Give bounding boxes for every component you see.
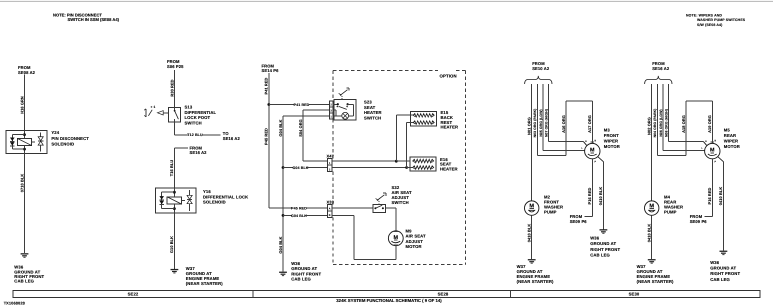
svg-text:N01 ORG: N01 ORG <box>526 117 531 135</box>
svg-text:SE14 P6: SE14 P6 <box>262 68 280 73</box>
svg-text:PUMP: PUMP <box>664 210 677 215</box>
svg-text:HEATER: HEATER <box>364 110 382 115</box>
svg-text:NOTE: WIPERS AND: NOTE: WIPERS AND <box>686 14 722 18</box>
svg-text:P16 RED: P16 RED <box>587 187 592 204</box>
svg-text:SE16 A2: SE16 A2 <box>190 150 208 155</box>
svg-text:A17 ORG: A17 ORG <box>587 115 592 133</box>
svg-text:SWITCH: SWITCH <box>392 200 409 205</box>
svg-text:R30 RED: R30 RED <box>169 79 174 96</box>
svg-text:SE09 P6: SE09 P6 <box>570 219 588 224</box>
svg-text:WIPER: WIPER <box>604 139 618 144</box>
svg-text:X47: X47 <box>327 154 335 159</box>
svg-text:T12 BLU: T12 BLU <box>187 133 203 137</box>
svg-text:W36: W36 <box>590 236 600 241</box>
svg-text:G04 BLK: G04 BLK <box>291 214 307 218</box>
svg-text:S23: S23 <box>364 99 372 104</box>
svg-text:(NEAR STARTER): (NEAR STARTER) <box>186 281 223 286</box>
svg-text:HEATER: HEATER <box>441 125 459 130</box>
svg-text:SOLENOID: SOLENOID <box>51 141 74 146</box>
svg-text:CAB LEG: CAB LEG <box>291 276 311 281</box>
svg-text:N04 ORG (PARK): N04 ORG (PARK) <box>653 109 657 138</box>
svg-text:G10 BLK: G10 BLK <box>169 236 174 253</box>
svg-text:P16 RED: P16 RED <box>707 187 712 204</box>
svg-text:SEAT: SEAT <box>364 105 376 110</box>
svg-text:N08 ORG (HIGH): N08 ORG (HIGH) <box>664 109 668 137</box>
svg-text:MOTOR: MOTOR <box>604 144 620 149</box>
svg-text:SE22: SE22 <box>128 292 139 297</box>
svg-text:CAB LEG: CAB LEG <box>590 252 610 257</box>
svg-text:FRONT: FRONT <box>604 133 619 138</box>
svg-text:PUMP: PUMP <box>544 210 557 215</box>
svg-text:HEATER: HEATER <box>440 167 458 172</box>
svg-text:P45 RED: P45 RED <box>291 207 307 211</box>
svg-text:REAR: REAR <box>724 133 736 138</box>
svg-text:SWITCH IN SSM (SE08 A4): SWITCH IN SSM (SE08 A4) <box>68 17 120 22</box>
svg-text:RIGHT FRONT: RIGHT FRONT <box>590 247 620 252</box>
svg-text:MOTOR: MOTOR <box>724 144 740 149</box>
svg-text:TX1068028: TX1068028 <box>4 301 26 306</box>
svg-text:SWITCH: SWITCH <box>185 120 202 125</box>
svg-text:GROUND AT: GROUND AT <box>590 241 616 246</box>
svg-text:T16 BLU: T16 BLU <box>169 160 174 177</box>
svg-text:X33: X33 <box>327 199 335 204</box>
svg-text:S/W (SE08 A4): S/W (SE08 A4) <box>697 23 722 27</box>
svg-text:324K SYSTEM FUNCTIONAL SCHEMAT: 324K SYSTEM FUNCTIONAL SCHEMATIC ( 9 OF … <box>336 298 442 303</box>
svg-text:M5: M5 <box>724 128 731 133</box>
svg-text:WASHER PUMP SWITCHES: WASHER PUMP SWITCHES <box>697 18 746 22</box>
svg-text:0410 BLK: 0410 BLK <box>718 187 723 206</box>
svg-text:G04 BLK: G04 BLK <box>278 119 283 136</box>
svg-text:N07 ORG (HIGH): N07 ORG (HIGH) <box>544 109 548 137</box>
svg-text:0710 BLK: 0710 BLK <box>19 174 24 193</box>
svg-text:0410 BLK: 0410 BLK <box>647 224 652 243</box>
svg-text:(NEAR STARTER): (NEAR STARTER) <box>637 279 674 284</box>
svg-text:GROUND AT: GROUND AT <box>710 266 736 271</box>
svg-text:G04 BLK: G04 BLK <box>292 166 308 170</box>
svg-text:+ 1: + 1 <box>151 105 156 109</box>
svg-text:SE16 A2: SE16 A2 <box>223 136 241 141</box>
svg-text:SE30: SE30 <box>629 292 640 297</box>
svg-text:CAB LEG: CAB LEG <box>710 277 730 282</box>
svg-text:W36: W36 <box>710 260 720 265</box>
svg-text:B: B <box>595 140 597 143</box>
svg-text:SE28: SE28 <box>438 292 449 297</box>
svg-text:A: A <box>329 208 331 211</box>
svg-text:SWITCH: SWITCH <box>364 116 381 121</box>
svg-text:RIGHT FRONT: RIGHT FRONT <box>710 271 740 276</box>
svg-text:N05 ORG (LOW): N05 ORG (LOW) <box>539 109 543 136</box>
svg-text:0410 BLK: 0410 BLK <box>527 224 532 243</box>
svg-text:SE16 A2: SE16 A2 <box>652 66 670 71</box>
svg-text:PIN DISCONNECT: PIN DISCONNECT <box>51 136 89 141</box>
svg-text:S04 ORG: S04 ORG <box>298 119 303 137</box>
svg-text:P41 RED: P41 RED <box>264 77 269 94</box>
svg-text:N06 ORG (LOW): N06 ORG (LOW) <box>659 109 663 136</box>
svg-text:A: A <box>705 140 707 143</box>
svg-text:P: P <box>595 160 597 163</box>
svg-text:P: P <box>715 160 717 163</box>
svg-text:H16 GRN: H16 GRN <box>19 96 24 114</box>
svg-text:WIPER: WIPER <box>724 139 738 144</box>
svg-text:Y24: Y24 <box>51 130 59 135</box>
svg-text:P45 RED: P45 RED <box>264 128 269 145</box>
svg-text:A18 ORG: A18 ORG <box>681 115 686 133</box>
svg-text:A: A <box>585 140 587 143</box>
svg-text:OPTION: OPTION <box>440 73 457 78</box>
svg-text:B: B <box>329 214 331 217</box>
svg-text:CAB LEG: CAB LEG <box>14 279 34 284</box>
svg-text:A16 ORG: A16 ORG <box>561 115 566 133</box>
svg-text:B: B <box>715 140 717 143</box>
svg-text:SE09 P6: SE09 P6 <box>690 219 708 224</box>
svg-text:A19 ORG: A19 ORG <box>707 115 712 133</box>
svg-text:N02 ORG: N02 ORG <box>646 117 651 135</box>
svg-text:SOLENOID: SOLENOID <box>203 200 226 205</box>
svg-text:SE10 A2: SE10 A2 <box>532 66 550 71</box>
svg-text:N03 ORG (PARK): N03 ORG (PARK) <box>533 109 537 138</box>
svg-text:MOTOR: MOTOR <box>406 244 422 249</box>
svg-text:P41 RED: P41 RED <box>294 103 310 107</box>
svg-text:G04 BLK: G04 BLK <box>278 236 283 253</box>
svg-text:0410 BLK: 0410 BLK <box>598 187 603 206</box>
svg-text:SE08 A2: SE08 A2 <box>18 70 36 75</box>
svg-text:M3: M3 <box>604 128 611 133</box>
svg-text:(NEAR STARTER): (NEAR STARTER) <box>517 279 554 284</box>
svg-text:S06 P25: S06 P25 <box>167 64 184 69</box>
